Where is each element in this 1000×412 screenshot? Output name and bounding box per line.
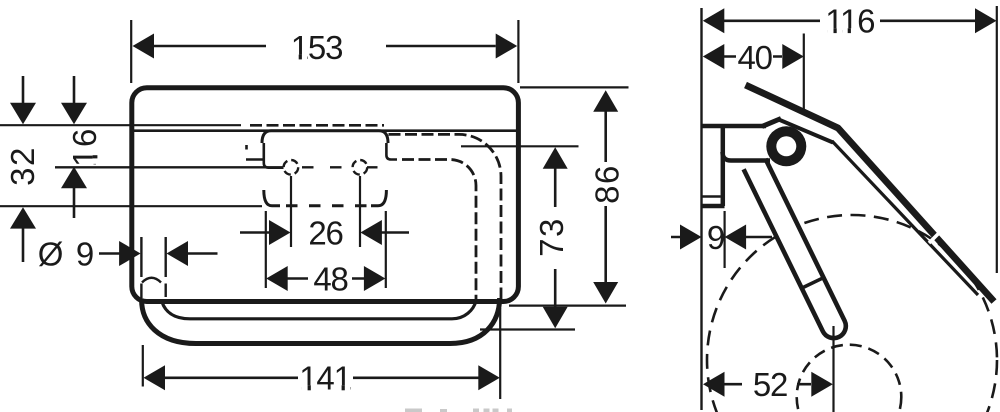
bracket arm to hinge connector [762,119,781,127]
roll holder strut [744,159,846,338]
hinge knuckle [766,126,806,166]
plate left edge [264,143,284,168]
wall bracket [702,126,771,206]
svg-text:141: 141 [299,360,350,397]
lid underside near hinge [778,119,834,143]
roll bar outer curve [142,298,500,344]
watermark fragments at bottom [405,409,512,412]
86 top extension line [520,86,629,88]
dimension 16 arrows [73,76,76,218]
lid underside steep section [832,141,978,295]
dimension 9 (wall plate depth) [671,211,772,268]
svg-text:52: 52 [753,366,787,403]
svg-text:116: 116 [825,3,874,40]
141 left extension line [142,345,144,387]
lid white notch [929,233,939,243]
dimension 73 line [554,166,557,309]
dimension diameter 9 leader and arrows [99,252,218,255]
hidden bar inner contour dashed (right) [402,160,476,300]
hole center line solid [55,166,284,168]
bar end dome arc [142,278,161,283]
dimension 153 line [154,45,496,48]
lid top edge [746,85,995,302]
73 top extension line [461,145,579,147]
small tick above step [245,145,248,150]
dimension 141 line [164,376,480,379]
73 bottom extension line [480,328,575,330]
dimension 40 arrowheads [703,44,804,69]
bar slot right edge [164,237,166,297]
dimension 141 arrowheads [144,365,500,390]
svg-text:40: 40 [738,39,773,76]
dimension 153 extension lines [131,20,518,83]
plate bottom edge left corner [264,190,280,206]
dimension 116 arrowheads [703,8,997,33]
plate bottom edge dashes [286,204,367,207]
dimension 73 arrowheads [543,147,568,328]
small step segment left of plate [246,158,264,161]
dimension 48 arrowheads [266,266,385,291]
dimension 86 line [604,110,607,283]
dimension 52 [724,326,834,412]
roll bar inner curve [162,301,476,319]
roll core dashed circle [797,345,902,412]
svg-text:48: 48 [313,260,347,297]
lid seam extension line (left) [0,124,241,126]
dimension 40 line [724,55,782,58]
svg-text:9: 9 [76,235,93,272]
hidden bar outer contour dashed (right) [389,134,502,299]
svg-text:153: 153 [291,29,342,66]
dimension 26 stems [240,231,409,234]
lid seam line across body [132,129,519,132]
dimension 116 line [724,19,976,22]
86 bottom extension line [509,305,626,307]
dimension 86 arrowheads [593,90,618,303]
plate right edge [386,143,397,160]
hole center line dashes [302,166,378,168]
screw hole circle left [284,160,299,175]
dimension 26 arrowheads [269,220,382,245]
svg-text:9: 9 [707,219,724,256]
paper roll dashed circle [707,215,997,412]
116 right extension line [996,6,998,273]
svg-text:86: 86 [589,164,626,204]
dimension 48 line segments [287,277,365,280]
dimension 48 extension lines [266,211,386,288]
screw hole circle right [353,160,368,175]
dimension 153 arrowheads [133,34,518,59]
141 right extension line [499,308,501,399]
strut rung [802,277,824,288]
front view body outline [132,88,519,302]
plate bottom edge right corner [371,190,386,206]
hidden bar top dashed over plate [250,124,384,127]
dimension 32 arrows [22,76,25,262]
wall line / left extension [700,8,702,410]
mounting plate top cap [262,131,388,143]
svg-text:73: 73 [533,217,570,257]
svg-text:32: 32 [4,146,41,186]
svg-text:26: 26 [308,214,342,251]
plate bottom extension line (left) [0,205,262,207]
40 extension line [803,34,805,112]
svg-text:Ø: Ø [38,235,63,272]
bar slot left edge [140,237,142,298]
dimension 26 extension lines [240,176,409,247]
digit 1 foot-serif masks [93,28,857,390]
